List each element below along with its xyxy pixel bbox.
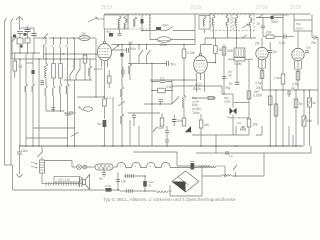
vertical x75 switch [71, 132, 79, 137]
voltage selector [31, 157, 45, 173]
cap C27 x167 lower [165, 136, 169, 147]
svg-text:30k: 30k [227, 49, 233, 53]
sperrkreis oval L8 [79, 107, 93, 111]
selector drop wire [41, 173, 43, 184]
wire left col x12 [11, 36, 13, 53]
right return vertical x264 [263, 153, 265, 176]
wire y138 left [26, 137, 68, 139]
corner wire x23.5-x33 [26, 62, 33, 64]
cap bars C35 [305, 51, 309, 53]
junction dots y97 [95, 96, 105, 98]
svg-text:4n: 4n [274, 50, 278, 54]
cathode cap C5 dark [103, 120, 107, 146]
vertical x296 [295, 90, 297, 146]
svg-text:5k: 5k [299, 102, 303, 106]
drive cord rhombus [172, 171, 199, 192]
output transformer bars [80, 177, 83, 187]
magic eye indicator [230, 94, 237, 135]
ground symbol [17, 168, 23, 178]
svg-text:2k: 2k [219, 48, 223, 52]
wire y153 right [196, 146, 311, 153]
resistor row R4 [152, 88, 172, 93]
wire y54 [44, 53, 97, 55]
label +180 [192, 96, 200, 104]
coil L5 box x60.5 [59, 47, 63, 111]
junction dots y111 [53, 110, 62, 112]
svg-text:50n: 50n [97, 122, 102, 126]
IF transformer 2 input box [199, 16, 210, 34]
cap under box dark [109, 33, 113, 37]
wire x4 x9 bottom joins [5, 164, 13, 166]
extension winding [134, 17, 137, 27]
band switch S2 [43, 34, 49, 40]
phone jack Y [240, 126, 246, 130]
wire y80 left [64, 79, 92, 81]
junction dots y54 [63, 53, 97, 55]
coil column x33 [32, 53, 35, 146]
branch x43.5 [43, 45, 45, 60]
contact stubs under band line [44, 38, 68, 47]
contact strip T2 [126, 174, 134, 178]
wire y17.5 right [256, 17, 283, 19]
heater chain base wire [126, 167, 199, 169]
wire y128 left [33, 127, 75, 129]
winding stub down [119, 29, 121, 33]
bus junction dots [25, 145, 297, 147]
wave band oval L10 [150, 37, 195, 43]
junction dots x145 [144, 175, 146, 192]
vertical x283 [282, 14, 284, 74]
flag indicator [185, 126, 192, 132]
bus y44.5 [112, 44, 196, 46]
junction dot x118 y190 [117, 189, 119, 191]
heating wire resistor squiggle [199, 166, 225, 168]
wire y90 right [262, 89, 318, 91]
vertical x224 Rg [223, 45, 225, 95]
svg-text:ECH4: ECH4 [94, 67, 103, 71]
svg-text:0,3M: 0,3M [274, 76, 281, 80]
IFT1 tuning arrow [88, 17, 97, 22]
input block box dark [13, 35, 16, 38]
selector to switch wire [41, 146, 43, 151]
svg-text:0,25M: 0,25M [253, 94, 262, 98]
svg-text:KH: KH [237, 121, 241, 125]
output transformer box [294, 14, 312, 31]
label block left of v3 [254, 86, 262, 94]
wire band line y38 [49, 37, 79, 39]
svg-text:4W: 4W [254, 90, 259, 94]
svg-text:220k: 220k [160, 43, 167, 47]
tube V3 [256, 38, 268, 70]
osc box winding 2 [124, 17, 127, 30]
label 50n 220k [224, 96, 231, 104]
fuse box F1 [104, 188, 120, 192]
svg-text:20k: 20k [266, 31, 272, 35]
wave switch S1 lever [12, 37, 17, 43]
electrolytic C18 x309.5 [308, 90, 312, 146]
coil L4 box x53.5 [52, 47, 56, 111]
resistor R9 x283 [281, 74, 285, 90]
svg-text:2n: 2n [257, 22, 261, 26]
switch S6 [139, 45, 143, 64]
svg-text:5n: 5n [99, 177, 103, 181]
resistor R11 x276 [274, 104, 278, 116]
svg-text:40n: 40n [106, 30, 111, 34]
wire x262 down [261, 70, 263, 91]
coil column x26 [25, 53, 28, 146]
volume coil x184 [182, 80, 186, 126]
svg-text:1u: 1u [229, 154, 233, 158]
osc coil L12 x130 [129, 45, 132, 81]
vertical x270 [269, 42, 271, 146]
mains label box [54, 177, 80, 183]
resistor R15 x249 [247, 91, 251, 99]
cap C24 on y153 [226, 151, 228, 155]
wire y104 switch line [144, 97, 179, 105]
verticals x130 x139 to bus [130, 120, 139, 146]
switch S12 top [152, 126, 158, 132]
switch S5 line y30.5 [141, 27, 195, 32]
heater arc 2 [132, 162, 141, 167]
vertical x39 [38, 59, 40, 146]
vertical x145 [144, 176, 146, 191]
IFT2B winding 1 [235, 14, 238, 31]
cap C9 x134 [132, 113, 136, 126]
scale lamp LP1 [72, 165, 81, 170]
bus end right verticals x289 x293 [289, 126, 293, 146]
osc box dashed extension [128, 15, 150, 29]
V4 cathode resistor R18 [296, 72, 300, 81]
resistor R6 small [208, 96, 214, 99]
ground cap C19 [17, 146, 22, 168]
cap C31 series [127, 48, 129, 53]
vertical x249 [248, 59, 250, 119]
cap C34 [159, 100, 164, 104]
tube V1 anode stub [112, 49, 127, 51]
svg-text:10k: 10k [253, 123, 259, 127]
svg-text:25u: 25u [311, 41, 317, 45]
wire oval to box [90, 37, 96, 39]
svg-text:50n: 50n [296, 22, 301, 26]
heater arc 4 [161, 162, 170, 167]
antenna terminal posts [5, 19, 14, 166]
junction dots band line [45, 37, 74, 39]
wire x205 to tube V2 [201, 38, 213, 45]
electrolytic C17 x304 [302, 90, 306, 146]
cap C8 x123 y72 [121, 67, 125, 77]
cap C29 [222, 77, 227, 79]
svg-text:2N: 2N [255, 42, 260, 46]
IFT2B winding 2 [249, 14, 252, 31]
svg-text:nF: nF [228, 74, 232, 78]
oscillator coil box solid [104, 15, 128, 29]
resistor R16 [207, 38, 217, 63]
connector strip [42, 182, 82, 186]
switch S8 [242, 35, 247, 38]
switch S7 [147, 45, 151, 64]
resistor R1 x85 [83, 54, 87, 80]
top bus wire y14 [104, 13, 310, 15]
vertical x216 [215, 135, 217, 153]
osc coil L9 x122 [118, 45, 125, 147]
cap C13 [284, 35, 294, 39]
wire y111 [46, 110, 64, 112]
svg-text:4,5y: 4,5y [255, 81, 262, 85]
heater arc 1 [117, 162, 126, 167]
wire y113 [128, 112, 160, 114]
svg-text:100n: 100n [21, 149, 28, 153]
loop box bottom [170, 166, 202, 196]
IF transformer 2 shield box B [233, 14, 254, 31]
L-wire x12.5 bottom [13, 165, 105, 190]
svg-text:0,1u: 0,1u [279, 41, 285, 45]
svg-text:Rk: Rk [19, 65, 23, 69]
coupling cap C14 [268, 50, 273, 52]
resistor R10 x270 [268, 96, 272, 105]
cap C6 y113 left [64, 111, 76, 115]
grid cap feed wire [97, 18, 104, 20]
svg-text:Rg: Rg [226, 86, 231, 90]
label 50nF [228, 70, 232, 78]
screen resistor R13 [108, 70, 112, 88]
label block 80n [192, 103, 201, 115]
wire y135 [192, 134, 249, 136]
svg-text:500n: 500n [271, 20, 278, 24]
cap C16 [287, 90, 291, 97]
junction dots y176 [224, 175, 236, 177]
svg-text:500k: 500k [193, 87, 201, 91]
capacitor C2 [25, 26, 31, 38]
input coupling capacitor C1 [17, 32, 23, 39]
junction dots input [19, 52, 35, 54]
small coil row y191 [156, 191, 172, 193]
svg-text:50n: 50n [171, 63, 177, 67]
tube V1 hexode [98, 29, 120, 61]
wire y59 long [12, 58, 96, 60]
IF transformer 2 shield box A [210, 14, 231, 31]
tube V1 grid cap wire [104, 61, 106, 97]
svg-text:220k: 220k [224, 100, 231, 104]
wire y97 [77, 96, 104, 98]
vertical x150 top [149, 14, 151, 40]
extension trimmer stub [141, 15, 143, 29]
wire antenna row y28 [20, 27, 35, 29]
resistor R12 x296 [294, 99, 298, 108]
resistor R5 x162 [160, 113, 164, 126]
speaker cap C20 [102, 168, 106, 178]
svg-text:20u: 20u [306, 46, 311, 50]
resistor R19 x201 [199, 114, 203, 146]
switch S4 [76, 59, 80, 80]
wire x237 down [236, 61, 238, 82]
svg-text:110-240: 110-240 [58, 178, 70, 182]
wire y135 right seg [256, 126, 262, 135]
svg-text:40m: 40m [162, 24, 169, 28]
junction dots y59 [19, 58, 75, 60]
cap C12 x263 [261, 18, 266, 37]
svg-text:8u: 8u [313, 101, 317, 105]
padder cap C7 [167, 61, 169, 66]
cap under box bars [118, 34, 122, 36]
svg-text:0,3A: 0,3A [105, 184, 111, 188]
svg-text:0,3M: 0,3M [234, 62, 242, 66]
svg-text:0,1: 0,1 [106, 96, 111, 100]
junction dots y44.5 [121, 44, 185, 46]
svg-text:1u: 1u [291, 86, 295, 90]
vertical x195 [194, 14, 196, 45]
vertical x118 [117, 172, 119, 190]
svg-text:2818: 2818 [101, 5, 112, 11]
svg-text:4W: 4W [204, 123, 209, 127]
heater arc 3 [147, 162, 156, 167]
right vertical x311 top [310, 13, 312, 15]
vertical x152 bottom [151, 126, 153, 146]
svg-text:Typ G 38CL, Allstrom, 2 Vorkre: Typ G 38CL, Allstrom, 2 Vorkreise und 4 … [103, 197, 236, 202]
tube V1 legs [102, 60, 108, 67]
wire selector right y160 [45, 161, 73, 168]
vertical x276 [275, 90, 277, 146]
vertical x205 x196 tube legs to bus [197, 80, 205, 92]
input coil L1 [17, 38, 23, 53]
extension trimmer dark [141, 19, 144, 24]
wire y86 right [172, 86, 224, 94]
cap C10 x174 [172, 115, 177, 126]
cap box C23 [190, 162, 195, 170]
vertical x225 drop [224, 166, 226, 176]
box above rhombus [177, 165, 210, 167]
resistor R8 20k [266, 35, 283, 38]
vertical x236 top [235, 126, 237, 135]
switch S9 [258, 15, 263, 19]
electrolytic can C28 [234, 48, 245, 57]
IFT2A winding 2 [226, 14, 229, 31]
wire y80 mid [150, 79, 197, 81]
urdox ballast resistor [95, 164, 117, 170]
cap C21 x118 [116, 180, 120, 182]
speaker [83, 175, 90, 190]
wire y94 eye [224, 93, 233, 95]
main bus y146 [19, 145, 303, 147]
cap C11 dark [270, 16, 273, 19]
cap box C22 [143, 181, 147, 187]
trimmer dark on x122 [120, 53, 123, 57]
tube V2 triode [194, 45, 208, 81]
small dark dot box [20, 45, 23, 48]
cap row C33 [152, 80, 172, 82]
coil L7 x90 [89, 59, 92, 80]
resistor R3 x184 [182, 45, 186, 81]
osc box winding 1 [118, 17, 121, 30]
wire y38 to band line [34, 37, 45, 39]
scale lamp LP2 [81, 165, 95, 169]
tube V4 output [292, 31, 304, 71]
vertical x113 [112, 97, 114, 146]
small contact coils y176 [222, 175, 232, 176]
wire y102.5 [233, 102, 249, 104]
coupling coil box L11 [13, 53, 17, 78]
dark cap x42 [41, 81, 45, 85]
svg-text:0,3M: 0,3M [187, 51, 195, 55]
capacitor C3 [32, 28, 37, 53]
svg-text:(Bandbreite): (Bandbreite) [272, 13, 289, 17]
antenna A [16, 17, 23, 31]
wire x12 lower [11, 53, 13, 59]
svg-text:2518: 2518 [290, 5, 301, 11]
cathode resistor R2 [103, 97, 107, 119]
svg-text:2618: 2618 [190, 5, 201, 11]
junction dots mid [151, 63, 185, 81]
wire y176 right [202, 175, 264, 177]
switch S3 [70, 59, 74, 80]
cap C32 [235, 82, 240, 84]
dark cap on x33 [31, 70, 34, 74]
coil L6 x67.5 [66, 47, 69, 146]
wire y191 row [120, 190, 156, 192]
wire y176 row [124, 175, 145, 177]
heater labels [120, 164, 167, 168]
vertical x172 [171, 80, 173, 104]
IFT2 tuning arrow [242, 24, 248, 28]
vertical x75 [74, 38, 76, 146]
junction dots y90 [275, 89, 310, 91]
antenna coil L2 oval [79, 35, 90, 40]
svg-text:50n: 50n [178, 119, 184, 123]
trimmer cap row y108 [51, 108, 55, 110]
input block box dark 2 [24, 33, 27, 36]
wire x20 down [19, 59, 21, 146]
heater return step wire [133, 152, 177, 166]
svg-text:2718: 2718 [256, 5, 267, 11]
vertical x152 [151, 94, 153, 126]
junction dots rows [151, 81, 173, 92]
svg-text:7kHz: 7kHz [192, 111, 200, 115]
coil L3 x46 [45, 47, 48, 111]
wire x318 [317, 90, 319, 125]
V3 cathode resistor R17 [260, 71, 264, 79]
svg-text:40m: 40m [158, 126, 165, 130]
IFT2 connection stubs [205, 31, 256, 39]
svg-text:30: 30 [148, 184, 152, 188]
vertical x96 [95, 38, 97, 97]
wire x298 down [297, 71, 299, 91]
contact strip T3 [127, 189, 133, 193]
cap C26 x167 [165, 126, 169, 136]
mains switch S10 [38, 151, 44, 157]
svg-text:50k: 50k [81, 32, 86, 36]
svg-text:50n: 50n [131, 47, 137, 51]
IFT2A winding 1 [212, 14, 215, 31]
resistor R14 0,3M [228, 58, 253, 61]
cap C15 series right [312, 31, 318, 90]
switch S11 [233, 165, 237, 176]
svg-text:Abstimmanzeige: Abstimmanzeige [227, 116, 250, 120]
trimmer T1 [25, 38, 30, 53]
vertical x283 low [282, 90, 284, 146]
svg-text:0,1: 0,1 [160, 77, 165, 81]
svg-text:10n: 10n [121, 180, 127, 184]
vertical x152b [151, 64, 153, 95]
wire y98 [192, 97, 216, 99]
svg-text:500n: 500n [296, 27, 303, 31]
wire x236 to can [236, 38, 238, 48]
resistor R7 x224 [222, 47, 226, 55]
wire y63.5 [128, 63, 166, 65]
node row y53 [12, 52, 40, 54]
cap box C30 [247, 119, 251, 135]
